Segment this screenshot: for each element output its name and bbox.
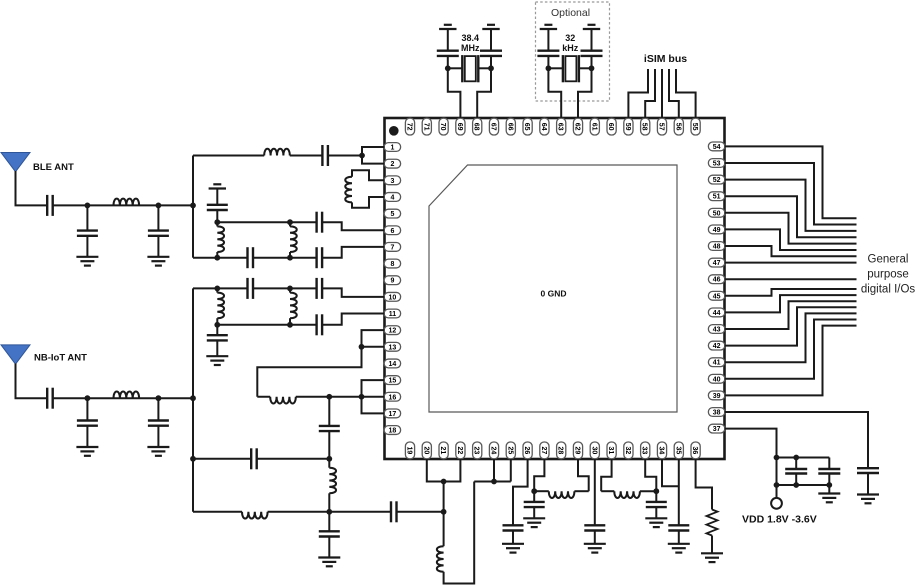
pin 63: [557, 118, 566, 135]
pin 27: [540, 442, 549, 459]
pin 52: [708, 175, 724, 184]
svg-text:51: 51: [713, 194, 721, 201]
wire: [257, 458, 330, 460]
svg-text:66: 66: [506, 123, 513, 131]
wire GPIO pin 51: [725, 196, 857, 237]
wire: [53, 397, 193, 399]
wire: [193, 155, 264, 157]
wire pin 36: [696, 459, 712, 510]
ground: [645, 518, 667, 527]
capacitor: [857, 468, 879, 494]
svg-text:57: 57: [658, 123, 665, 131]
svg-text:20: 20: [422, 447, 429, 455]
wire pin 31: [601, 459, 611, 491]
junction: [359, 344, 365, 350]
wire pin 35: [678, 459, 680, 525]
junction: [156, 203, 162, 209]
wire pins 24-25 tie: [474, 459, 511, 482]
inductor shunt: [328, 459, 330, 468]
junction: [441, 479, 447, 485]
ground: [318, 558, 340, 567]
IC U1 QFN-72 package outline: [385, 118, 725, 459]
svg-text:VDD 1.8V -3.6V: VDD 1.8V -3.6V: [742, 514, 817, 526]
svg-text:2: 2: [390, 161, 394, 168]
inductor big loop: [443, 512, 445, 546]
svg-text:1: 1: [390, 145, 394, 152]
ground: [502, 544, 524, 553]
capacitor shunt: [77, 398, 98, 447]
pin 20: [422, 442, 431, 459]
pin 4: [384, 193, 400, 202]
pin 60: [607, 118, 616, 135]
ground: [76, 257, 98, 266]
pin 1 marker dot: [389, 126, 399, 136]
pin 44: [708, 308, 724, 317]
ground: [147, 257, 169, 266]
pin 59: [624, 118, 633, 135]
pin 46: [708, 275, 724, 284]
wire pin 30: [594, 459, 596, 525]
svg-text:65: 65: [523, 123, 530, 131]
svg-text:62: 62: [574, 123, 581, 131]
junction: [774, 455, 780, 461]
crystal 38.4 MHz: [462, 55, 478, 82]
pin 18: [384, 426, 400, 435]
wire: [290, 155, 323, 157]
antenna NB-IoT ANT: [1, 345, 30, 364]
pin 57: [657, 118, 666, 135]
inductor NB feed: [114, 391, 140, 398]
ground: [701, 553, 723, 562]
svg-text:64: 64: [540, 123, 547, 131]
junction: [445, 65, 451, 71]
svg-text:37: 37: [713, 426, 721, 433]
pin 16: [384, 392, 400, 401]
junction: [326, 394, 332, 400]
pin 69: [456, 118, 465, 135]
svg-text:60: 60: [607, 123, 614, 131]
ground: [147, 447, 169, 456]
wire GPIO pin 49: [725, 229, 857, 250]
inductor shunt: [289, 288, 291, 292]
wire DCDC line: [257, 396, 270, 398]
pin 62: [573, 118, 582, 135]
pin 35: [674, 442, 683, 459]
wire: [253, 287, 317, 289]
wire GPIO pin 41: [725, 313, 857, 362]
junction: [589, 65, 595, 71]
pin 56: [674, 118, 683, 135]
svg-text:53: 53: [713, 161, 721, 168]
svg-text:27: 27: [540, 447, 547, 455]
svg-text:28: 28: [557, 447, 564, 455]
junction: [214, 322, 220, 328]
wire to pin 7: [322, 247, 384, 258]
wire: [296, 396, 385, 398]
svg-text:44: 44: [713, 310, 721, 317]
pin 31: [607, 442, 616, 459]
capacitor shunt: [77, 205, 98, 256]
capacitor load: [480, 29, 502, 68]
wire GPIO pin 43: [725, 301, 857, 329]
pin 1: [384, 143, 400, 152]
wire GPIO pin 44: [725, 295, 857, 312]
inductor shunt: [216, 288, 218, 292]
svg-text:General: General: [868, 254, 909, 266]
ground: [857, 495, 879, 504]
antenna BLE ANT: [1, 153, 30, 172]
svg-text:16: 16: [389, 394, 397, 401]
pin 9: [384, 276, 400, 285]
pin 36: [691, 442, 700, 459]
pin 38: [708, 408, 724, 417]
svg-text:38: 38: [713, 410, 721, 417]
pin 3: [384, 176, 400, 185]
wire: [574, 490, 588, 492]
svg-text:24: 24: [490, 447, 497, 455]
svg-text:MHz: MHz: [461, 43, 480, 53]
junction: [326, 509, 332, 515]
pin 49: [708, 225, 724, 234]
capacitor shunt: [207, 325, 228, 356]
wire GPIO pin 48: [725, 246, 857, 256]
inductor shunt: [216, 222, 218, 226]
wire: [53, 204, 193, 206]
wire VDD rail bottom: [777, 484, 830, 486]
wire pin 29: [578, 459, 589, 491]
capacitor series: [391, 501, 397, 522]
svg-text:63: 63: [557, 123, 564, 131]
inductor BLE feed: [114, 199, 140, 206]
capacitor: [785, 458, 807, 486]
pin 66: [506, 118, 515, 135]
pin 34: [657, 442, 666, 459]
wire pin 26: [513, 459, 528, 525]
svg-text:68: 68: [473, 123, 480, 131]
junction: [359, 394, 365, 400]
pin 55: [691, 118, 700, 135]
ground inverted: [482, 25, 499, 29]
svg-text:7: 7: [390, 244, 394, 251]
junction: [826, 482, 832, 488]
junction: [287, 286, 293, 292]
capacitor series: [317, 247, 323, 268]
wire BLE rail: [192, 156, 194, 258]
svg-text:9: 9: [390, 278, 394, 285]
pin 22: [456, 442, 465, 459]
junction: [214, 255, 220, 261]
junction: [793, 455, 799, 461]
pin 11: [384, 309, 400, 318]
svg-text:35: 35: [674, 447, 681, 455]
wire iSIM 4: [669, 69, 679, 118]
svg-text:69: 69: [456, 123, 463, 131]
svg-text:42: 42: [713, 343, 721, 350]
pin 68: [473, 118, 482, 135]
wire GPIO pin 53: [725, 163, 857, 225]
svg-text:11: 11: [389, 311, 397, 318]
ground: [76, 447, 98, 456]
pin 53: [708, 159, 724, 168]
ground inverted: [540, 25, 557, 29]
junction: [359, 153, 365, 159]
wire: [548, 67, 563, 69]
svg-text:31: 31: [607, 447, 614, 455]
svg-text:12: 12: [389, 328, 397, 335]
junction: [491, 479, 497, 485]
wire iSIM 5: [676, 69, 696, 118]
capacitor load: [437, 29, 459, 68]
wire: [397, 511, 444, 513]
pin 45: [708, 291, 724, 300]
svg-text:40: 40: [713, 376, 721, 383]
svg-text:25: 25: [506, 447, 513, 455]
capacitor series: [251, 448, 257, 469]
wire pin 38: [725, 412, 869, 468]
svg-text:56: 56: [674, 123, 681, 131]
svg-text:kHz: kHz: [562, 43, 579, 53]
svg-text:72: 72: [406, 123, 413, 131]
pin 23: [473, 442, 482, 459]
svg-text:3: 3: [390, 178, 394, 185]
svg-text:Optional: Optional: [551, 7, 590, 19]
pin 25: [506, 442, 515, 459]
terminal VDD: [771, 498, 782, 509]
svg-text:iSIM bus: iSIM bus: [644, 53, 687, 65]
capacitor shunt: [503, 525, 524, 544]
pin 12: [384, 326, 400, 335]
inductor: [264, 149, 290, 156]
pin 51: [708, 192, 724, 201]
wire: [711, 536, 713, 554]
pin 71: [422, 118, 431, 135]
wire upper line: [217, 221, 316, 223]
optional box: [536, 2, 610, 101]
pin 72: [405, 118, 414, 135]
wire upper line: [193, 287, 248, 289]
wire: [534, 490, 549, 492]
capacitor shunt: [584, 525, 605, 544]
junction: [326, 456, 332, 462]
pin 67: [489, 118, 498, 135]
inductor: [614, 491, 640, 498]
wire GPIO pin 45: [725, 289, 857, 296]
svg-text:30: 30: [590, 447, 597, 455]
wire to pin 10: [322, 288, 384, 296]
wire pins 15-17 tie: [362, 380, 385, 413]
svg-text:4: 4: [390, 194, 394, 201]
svg-text:13: 13: [389, 344, 397, 351]
pin 70: [439, 118, 448, 135]
pin 2: [384, 159, 400, 168]
wire GPIO pin 39: [725, 326, 857, 396]
junction: [85, 203, 91, 209]
wire VDD rail top: [777, 457, 830, 459]
wire node line: [193, 458, 251, 460]
svg-text:26: 26: [523, 447, 530, 455]
capacitor shunt: [524, 491, 545, 518]
ground: [584, 544, 606, 553]
junction: [793, 482, 799, 488]
junction: [488, 65, 494, 71]
capacitor shunt: [319, 512, 340, 558]
wire lower line: [193, 257, 248, 259]
wire: [640, 490, 656, 492]
wire: [253, 257, 317, 259]
wire: [268, 511, 391, 513]
junction: [287, 322, 293, 328]
capacitor shunt: [148, 205, 169, 256]
svg-text:17: 17: [389, 411, 397, 418]
pin 17: [384, 409, 400, 418]
svg-text:61: 61: [590, 123, 597, 131]
svg-text:6: 6: [390, 228, 394, 235]
pin 43: [708, 325, 724, 334]
junction: [531, 488, 537, 494]
pin 26: [523, 442, 532, 459]
wire pin 13 stub: [362, 346, 385, 348]
junction: [546, 65, 552, 71]
crystal 32 kHz: [563, 55, 579, 82]
pin 28: [557, 442, 566, 459]
svg-text:33: 33: [641, 447, 648, 455]
svg-text:67: 67: [490, 123, 497, 131]
exposed pad 0 GND outline: [429, 165, 677, 412]
wire iSIM 1: [628, 69, 648, 118]
svg-text:48: 48: [713, 244, 721, 251]
capacitor series: [317, 314, 323, 335]
pin 5: [384, 209, 400, 218]
junction node NB rail: [190, 395, 196, 401]
pin 7: [384, 243, 400, 252]
pin 8: [384, 259, 400, 268]
wire: [579, 67, 592, 69]
capacitor series BLE feed: [47, 195, 53, 216]
ground inverted: [209, 184, 226, 188]
pin 39: [708, 391, 724, 400]
pin 65: [523, 118, 532, 135]
svg-text:purpose: purpose: [867, 269, 909, 281]
svg-text:14: 14: [389, 361, 397, 368]
wire GPIO pin 50: [725, 213, 857, 244]
ground inverted: [583, 25, 600, 29]
svg-text:47: 47: [713, 260, 721, 267]
pin 32: [624, 442, 633, 459]
svg-text:38.4: 38.4: [462, 33, 480, 43]
svg-text:55: 55: [691, 123, 698, 131]
wire iSIM 2: [645, 69, 655, 118]
wire bottom line: [193, 511, 242, 513]
svg-text:45: 45: [713, 293, 721, 300]
capacitor series: [322, 145, 328, 166]
svg-text:70: 70: [439, 123, 446, 131]
wire to pin 63: [548, 68, 561, 118]
wire: [478, 67, 491, 69]
wire to pin 11: [322, 314, 384, 325]
wire GPIO pin 52: [725, 180, 857, 231]
capacitor series vertical: [319, 397, 340, 459]
wire pins 20-22 tie: [427, 459, 461, 482]
pin 15: [384, 376, 400, 385]
ground inverted: [439, 25, 456, 29]
pin 40: [708, 374, 724, 383]
svg-text:21: 21: [439, 447, 446, 455]
capacitor series: [248, 247, 254, 268]
pin 47: [708, 258, 724, 267]
svg-text:58: 58: [641, 123, 648, 131]
inductor shunt: [289, 222, 291, 226]
capacitor shunt: [668, 525, 689, 544]
junction: [85, 395, 91, 401]
wire: [828, 485, 830, 494]
svg-text:23: 23: [473, 447, 480, 455]
svg-text:19: 19: [406, 447, 413, 455]
capacitor shunt: [646, 491, 667, 518]
wire: [448, 67, 463, 69]
ground: [206, 356, 228, 365]
pin 50: [708, 208, 724, 217]
pin 24: [489, 442, 498, 459]
wire pin 37: [725, 429, 777, 498]
pin 37: [708, 424, 724, 433]
inductor pins 3-4: [352, 170, 385, 180]
wire GPIO pin 46: [725, 278, 857, 280]
wire antenna feed: [16, 171, 48, 205]
wire pin 12 to loop: [257, 330, 384, 397]
svg-text:50: 50: [713, 210, 721, 217]
pin 10: [384, 292, 400, 301]
wire: [601, 490, 614, 492]
junction: [287, 255, 293, 261]
svg-text:34: 34: [658, 447, 665, 455]
pin 30: [590, 442, 599, 459]
capacitor series: [317, 212, 323, 233]
ground: [523, 518, 545, 527]
junction: [156, 395, 162, 401]
svg-text:54: 54: [713, 144, 721, 151]
wire GPIO pin 47: [725, 262, 857, 264]
pin 6: [384, 226, 400, 235]
wire GPIO pin 40: [725, 320, 857, 379]
svg-text:15: 15: [389, 378, 397, 385]
wire antenna feed: [16, 364, 48, 399]
junction: [287, 219, 293, 225]
svg-text:32: 32: [624, 447, 631, 455]
pin 29: [573, 442, 582, 459]
svg-text:41: 41: [713, 360, 721, 367]
capacitor series NB feed: [47, 388, 53, 409]
resistor pull: [707, 510, 718, 536]
junction: [190, 456, 196, 462]
pin 19: [405, 442, 414, 459]
svg-text:BLE ANT: BLE ANT: [33, 162, 74, 173]
wire lower line: [217, 324, 316, 326]
capacitor: [818, 458, 840, 486]
capacitor load: [581, 29, 603, 68]
wire GPIO pin 54: [725, 146, 857, 218]
pin 13: [384, 342, 400, 351]
wire pins 1-2 tie: [362, 147, 385, 164]
inductor DCDC: [270, 397, 296, 404]
inductor: [242, 512, 268, 519]
junction: [441, 509, 447, 515]
inductor: [549, 491, 575, 498]
wire pin 34: [662, 459, 679, 486]
svg-text:36: 36: [691, 447, 698, 455]
capacitor series: [317, 278, 323, 299]
svg-text:0 GND: 0 GND: [541, 289, 567, 299]
capacitor series: [248, 278, 254, 299]
